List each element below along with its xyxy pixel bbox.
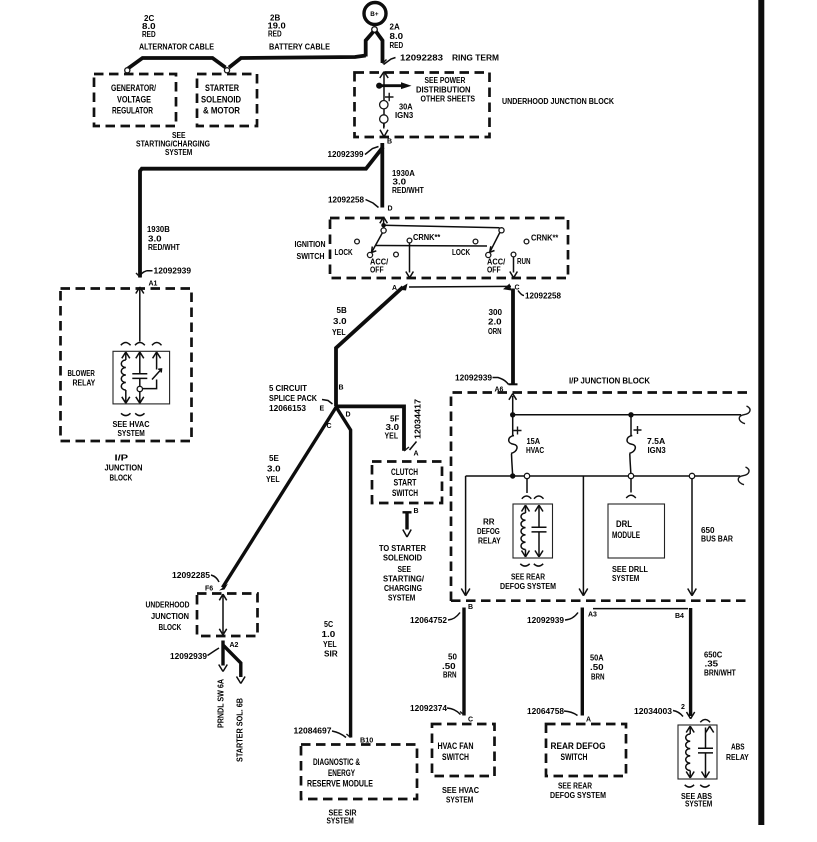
svg-text:CRNK**: CRNK** — [531, 234, 559, 243]
svg-text:B: B — [414, 508, 419, 515]
svg-text:VOLTAGE: VOLTAGE — [117, 94, 151, 105]
svg-text:SEE REAR: SEE REAR — [511, 573, 545, 582]
svg-text:MODULE: MODULE — [612, 529, 640, 540]
svg-text:OTHER SHEETS: OTHER SHEETS — [421, 95, 476, 104]
svg-text:SWITCH: SWITCH — [561, 751, 588, 762]
svg-text:BLOCK: BLOCK — [110, 474, 133, 483]
svg-text:5E: 5E — [269, 454, 279, 463]
svg-text:RELAY: RELAY — [73, 379, 96, 388]
svg-text:OFF: OFF — [370, 266, 384, 275]
svg-text:ALTERNATOR CABLE: ALTERNATOR CABLE — [139, 43, 215, 52]
svg-text:15A: 15A — [527, 437, 541, 446]
svg-text:DISTRIBUTION: DISTRIBUTION — [416, 86, 471, 95]
svg-text:12064758: 12064758 — [527, 707, 565, 716]
svg-text:2: 2 — [681, 704, 685, 711]
svg-text:ABS: ABS — [731, 743, 745, 752]
svg-text:12092285: 12092285 — [172, 571, 211, 580]
svg-text:B: B — [339, 385, 344, 392]
svg-text:UNDERHOOD: UNDERHOOD — [146, 601, 190, 610]
svg-text:3.0: 3.0 — [267, 465, 281, 474]
svg-text:12092258: 12092258 — [328, 196, 365, 205]
svg-text:2.0: 2.0 — [488, 318, 502, 327]
svg-text:2A: 2A — [390, 23, 400, 32]
svg-text:START: START — [394, 477, 417, 488]
svg-text:SEE DRLL: SEE DRLL — [612, 565, 648, 574]
svg-text:UNDERHOOD JUNCTION BLOCK: UNDERHOOD JUNCTION BLOCK — [502, 97, 614, 106]
svg-text:YEL: YEL — [323, 640, 337, 649]
svg-text:F6: F6 — [205, 586, 213, 593]
svg-text:12092374: 12092374 — [410, 704, 448, 713]
svg-text:RED/WHT: RED/WHT — [148, 243, 180, 252]
svg-text:SEE POWER: SEE POWER — [425, 76, 466, 85]
svg-text:3.0: 3.0 — [333, 317, 347, 326]
svg-text:YEL: YEL — [385, 432, 399, 441]
svg-text:B4: B4 — [675, 613, 684, 620]
svg-text:DRL: DRL — [616, 518, 632, 529]
svg-text:BRN/WHT: BRN/WHT — [704, 669, 736, 678]
svg-text:300: 300 — [489, 308, 503, 317]
svg-text:5 CIRCUIT: 5 CIRCUIT — [269, 384, 307, 393]
svg-text:12084697: 12084697 — [294, 727, 333, 736]
svg-text:SWITCH: SWITCH — [392, 487, 418, 498]
svg-text:& MOTOR: & MOTOR — [203, 105, 240, 116]
svg-text:RED: RED — [142, 30, 156, 39]
svg-text:D: D — [388, 206, 393, 213]
svg-text:12092939: 12092939 — [455, 374, 493, 383]
svg-text:SYSTEM: SYSTEM — [327, 817, 355, 826]
svg-text:A2: A2 — [230, 642, 239, 649]
svg-text:YEL: YEL — [332, 328, 346, 337]
svg-text:B: B — [468, 604, 473, 611]
svg-text:SIR: SIR — [324, 650, 338, 659]
svg-text:IGN3: IGN3 — [395, 111, 414, 120]
svg-text:JUNCTION: JUNCTION — [151, 612, 189, 621]
svg-text:12092258: 12092258 — [525, 292, 562, 301]
svg-text:12092399: 12092399 — [328, 150, 365, 159]
svg-text:RED/WHT: RED/WHT — [392, 186, 424, 195]
svg-text:BATTERY CABLE: BATTERY CABLE — [269, 43, 331, 52]
svg-text:BRN: BRN — [591, 673, 605, 682]
svg-text:SYSTEM: SYSTEM — [612, 574, 640, 583]
svg-text:BUS BAR: BUS BAR — [701, 535, 733, 544]
svg-text:12064752: 12064752 — [410, 616, 448, 625]
svg-text:STARTING/: STARTING/ — [383, 575, 425, 584]
svg-text:A: A — [414, 451, 419, 458]
svg-text:12092939: 12092939 — [154, 267, 192, 276]
svg-text:SWITCH: SWITCH — [297, 252, 325, 261]
svg-text:HVAC: HVAC — [526, 446, 544, 455]
svg-text:7.5A: 7.5A — [647, 437, 665, 446]
svg-text:.35: .35 — [705, 660, 719, 669]
svg-text:SYSTEM: SYSTEM — [446, 796, 474, 805]
svg-text:OFF: OFF — [487, 266, 501, 275]
svg-text:RED: RED — [390, 41, 404, 50]
svg-text:RING TERM: RING TERM — [452, 54, 499, 63]
svg-text:RELAY: RELAY — [478, 537, 501, 546]
svg-text:12034417: 12034417 — [414, 398, 423, 439]
svg-text:SOLENOID: SOLENOID — [201, 94, 241, 105]
svg-text:PRNDL SW 6A: PRNDL SW 6A — [217, 679, 226, 728]
svg-text:A3: A3 — [588, 612, 597, 619]
svg-text:8.0: 8.0 — [390, 32, 404, 41]
svg-text:C: C — [468, 717, 473, 724]
svg-text:CLUTCH: CLUTCH — [391, 466, 418, 477]
svg-text:12092939: 12092939 — [527, 616, 565, 625]
svg-text:IGN3: IGN3 — [648, 446, 667, 455]
svg-text:RR: RR — [483, 518, 495, 527]
svg-text:1.0: 1.0 — [322, 630, 336, 639]
svg-text:SEE HVAC: SEE HVAC — [113, 420, 150, 429]
svg-text:B+: B+ — [370, 11, 379, 18]
svg-text:SEE: SEE — [398, 565, 412, 574]
svg-text:SOLENOID: SOLENOID — [383, 554, 422, 563]
svg-text:IGNITION: IGNITION — [295, 240, 326, 249]
svg-text:REAR DEFOG: REAR DEFOG — [551, 740, 606, 751]
svg-text:DEFOG SYSTEM: DEFOG SYSTEM — [500, 582, 556, 591]
svg-text:JUNCTION: JUNCTION — [105, 464, 143, 473]
svg-text:YEL: YEL — [266, 475, 280, 484]
svg-text:BRN: BRN — [443, 671, 457, 680]
svg-text:.50: .50 — [590, 663, 604, 672]
svg-text:A: A — [586, 717, 591, 724]
svg-text:RELAY: RELAY — [726, 753, 749, 762]
svg-text:ORN: ORN — [488, 327, 502, 336]
svg-text:C: C — [327, 423, 332, 430]
svg-text:DEFOG SYSTEM: DEFOG SYSTEM — [550, 791, 606, 800]
svg-text:RED: RED — [268, 30, 282, 39]
svg-text:SYSTEM: SYSTEM — [388, 594, 416, 603]
svg-text:SPLICE PACK: SPLICE PACK — [269, 394, 317, 403]
svg-text:TO STARTER: TO STARTER — [379, 544, 426, 553]
svg-text:RESERVE MODULE: RESERVE MODULE — [307, 778, 373, 789]
svg-text:STARTER SOL. 6B: STARTER SOL. 6B — [236, 698, 245, 762]
svg-text:I/P JUNCTION BLOCK: I/P JUNCTION BLOCK — [569, 377, 650, 386]
svg-text:12092939: 12092939 — [170, 652, 208, 661]
svg-text:REGULATOR: REGULATOR — [112, 105, 153, 116]
svg-text:E: E — [320, 406, 325, 413]
svg-text:SYSTEM: SYSTEM — [165, 148, 193, 157]
svg-text:D: D — [346, 412, 351, 419]
svg-text:12034003: 12034003 — [634, 707, 673, 716]
svg-text:5B: 5B — [337, 306, 347, 315]
svg-text:50: 50 — [448, 653, 457, 662]
svg-text:650C: 650C — [704, 651, 722, 660]
svg-text:DEFOG: DEFOG — [477, 527, 500, 536]
svg-text:B: B — [387, 139, 392, 146]
svg-text:SEE HVAC: SEE HVAC — [442, 786, 479, 795]
svg-text:LOCK: LOCK — [335, 248, 353, 257]
svg-text:SEE REAR: SEE REAR — [558, 782, 592, 791]
svg-text:1930B: 1930B — [147, 225, 170, 234]
svg-text:CHARGING: CHARGING — [384, 584, 422, 593]
svg-text:CRNK**: CRNK** — [413, 233, 441, 242]
svg-text:ENERGY: ENERGY — [328, 767, 356, 778]
svg-text:SYSTEM: SYSTEM — [685, 800, 713, 809]
svg-text:I/P: I/P — [115, 454, 130, 463]
svg-text:DIAGNOSTIC &: DIAGNOSTIC & — [313, 756, 360, 767]
svg-text:HVAC FAN: HVAC FAN — [438, 740, 474, 751]
svg-text:12066153: 12066153 — [269, 404, 307, 413]
svg-text:12092283: 12092283 — [400, 54, 444, 63]
svg-text:BLOWER: BLOWER — [68, 369, 95, 378]
svg-text:5C: 5C — [324, 620, 333, 629]
svg-text:BLOCK: BLOCK — [159, 623, 182, 632]
svg-text:GENERATOR/: GENERATOR/ — [111, 82, 156, 93]
svg-text:RUN: RUN — [517, 257, 531, 266]
svg-text:SYSTEM: SYSTEM — [118, 429, 146, 438]
svg-text:SWITCH: SWITCH — [442, 751, 469, 762]
svg-text:LOCK: LOCK — [452, 248, 470, 257]
svg-text:STARTER: STARTER — [205, 82, 239, 93]
svg-text:A1: A1 — [149, 281, 158, 288]
svg-text:50A: 50A — [590, 654, 604, 663]
